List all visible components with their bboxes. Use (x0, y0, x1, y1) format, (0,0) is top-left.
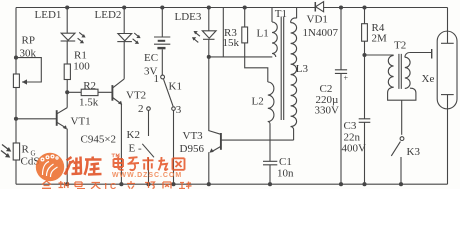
node k2-gnd (146, 182, 150, 186)
transformer T1 winding L3 (291, 8, 297, 141)
svg-text:D956: D956 (180, 143, 205, 155)
svg-text:400V: 400V (342, 142, 367, 154)
svg-text:2: 2 (138, 103, 144, 115)
svg-text:EC: EC (144, 52, 158, 64)
svg-text:LED1: LED1 (35, 9, 62, 21)
node k1-3-gnd (171, 182, 175, 186)
switch K2 (142, 144, 154, 184)
transformer T1 winding L2 (268, 82, 274, 161)
resistor R3 (242, 8, 268, 83)
wire r4 to T2 (365, 54, 394, 56)
svg-text:C1: C1 (279, 156, 292, 168)
svg-text:3: 3 (176, 104, 182, 116)
watermark text ku (85, 157, 102, 175)
node c3-gnd (362, 182, 366, 186)
svg-text:WWW.DZSC.COM: WWW.DZSC.COM (112, 172, 182, 179)
svg-text:LED2: LED2 (95, 9, 122, 21)
svg-text:+: + (344, 74, 349, 83)
svg-text:L2: L2 (252, 95, 264, 107)
svg-text:15k: 15k (223, 37, 240, 49)
LED LED2 (117, 8, 140, 79)
potentiometer RP (13, 58, 41, 88)
LED LED1 (61, 8, 86, 65)
svg-text:VT1: VT1 (71, 116, 91, 128)
wire bottom rail (16, 183, 448, 185)
transistor VT2 (112, 79, 124, 184)
svg-text:K3: K3 (407, 146, 421, 158)
svg-text:330V: 330V (315, 105, 340, 117)
node k3-gnd (399, 182, 403, 186)
capacitor C2 (335, 8, 347, 185)
svg-text:K2: K2 (127, 129, 140, 141)
svg-text:VD1: VD1 (307, 13, 328, 25)
node pot-top (14, 56, 18, 60)
svg-text:L1: L1 (257, 27, 269, 39)
watermark text dian (114, 156, 124, 170)
resistor R4 (362, 8, 368, 119)
xenon tube Xe (437, 8, 457, 185)
watermark text wang (173, 158, 185, 170)
node lde3-top (207, 5, 211, 9)
node led2-top (122, 5, 126, 9)
watermark text wei (65, 157, 82, 175)
switch K1 (147, 75, 176, 184)
svg-text:100: 100 (73, 60, 90, 72)
node r4-top (362, 5, 366, 9)
svg-text:R2: R2 (83, 80, 96, 92)
svg-text:30k: 30k (20, 48, 37, 60)
svg-text:C945×2: C945×2 (81, 134, 117, 146)
transformer T1 winding L1 (272, 8, 277, 57)
transistor VT1 (57, 92, 67, 184)
wire top rail (16, 7, 448, 9)
battery EC (154, 8, 170, 76)
wire vt1 base (16, 118, 56, 120)
svg-text:VT2: VT2 (126, 90, 146, 102)
trigger electrode plate (431, 49, 433, 59)
photoresistor RG CdS (1, 143, 20, 160)
transformer T2 primary (388, 55, 393, 87)
watermark text shi (143, 157, 154, 170)
svg-text:K1: K1 (169, 81, 182, 93)
capacitor C3 (359, 119, 371, 184)
svg-text:C3: C3 (344, 120, 357, 132)
svg-text:C: C (110, 181, 116, 189)
svg-text:2M: 2M (372, 33, 388, 45)
transformer T2 core (399, 54, 401, 89)
node vt2-e-gnd (119, 182, 123, 186)
transformer T2 base bell (388, 87, 416, 135)
resistor R1 (64, 64, 70, 80)
node r4-t2 (362, 53, 366, 57)
svg-text:T2: T2 (394, 39, 406, 51)
watermark text zi (128, 157, 140, 170)
watermark text chang (159, 157, 168, 170)
wire lde3 junction to L1 bottom (209, 56, 272, 58)
svg-text:1.5k: 1.5k (79, 96, 99, 108)
watermark (36, 153, 192, 191)
node r1-r2 (65, 90, 69, 94)
wire r1-bottom (66, 80, 68, 93)
svg-text:RP: RP (22, 35, 35, 47)
node c2-gnd (339, 182, 343, 186)
svg-text:LDE3: LDE3 (175, 11, 202, 23)
transformer T2 secondary (405, 53, 432, 89)
resistor R2 (67, 89, 112, 95)
node lde3-vt3 (207, 55, 211, 59)
LED LDE3 (192, 8, 216, 57)
watermark tm (112, 154, 120, 157)
node vt1-base (14, 117, 18, 121)
svg-text:VT3: VT3 (183, 130, 204, 142)
node vt3-e-gnd (207, 182, 211, 186)
svg-text:Xe: Xe (422, 73, 435, 85)
svg-text:E -: E - (129, 142, 142, 154)
svg-text:R: R (22, 144, 30, 156)
diode VD1 (315, 2, 323, 12)
svg-text:1N4007: 1N4007 (303, 27, 339, 39)
svg-text:I: I (105, 181, 107, 189)
capacitor C1 (263, 161, 277, 184)
svg-text:1: 1 (154, 73, 160, 85)
wire rail to junction wire (222, 8, 224, 57)
svg-text:L3: L3 (296, 63, 309, 75)
transformer T1 core (281, 17, 284, 121)
node led1-top (65, 5, 69, 9)
watermark logo circle (36, 153, 64, 181)
watermark bottom slogan (42, 181, 101, 189)
node r3-top (243, 5, 247, 9)
transistor VT3 (209, 57, 294, 184)
switch K3 (391, 137, 404, 184)
svg-text:10n: 10n (277, 167, 294, 179)
wire left rail (15, 8, 17, 185)
node vt1-e-gnd (65, 182, 69, 186)
node battery-top (160, 5, 164, 9)
node c2-top (339, 5, 343, 9)
node c1-gnd (268, 182, 272, 186)
